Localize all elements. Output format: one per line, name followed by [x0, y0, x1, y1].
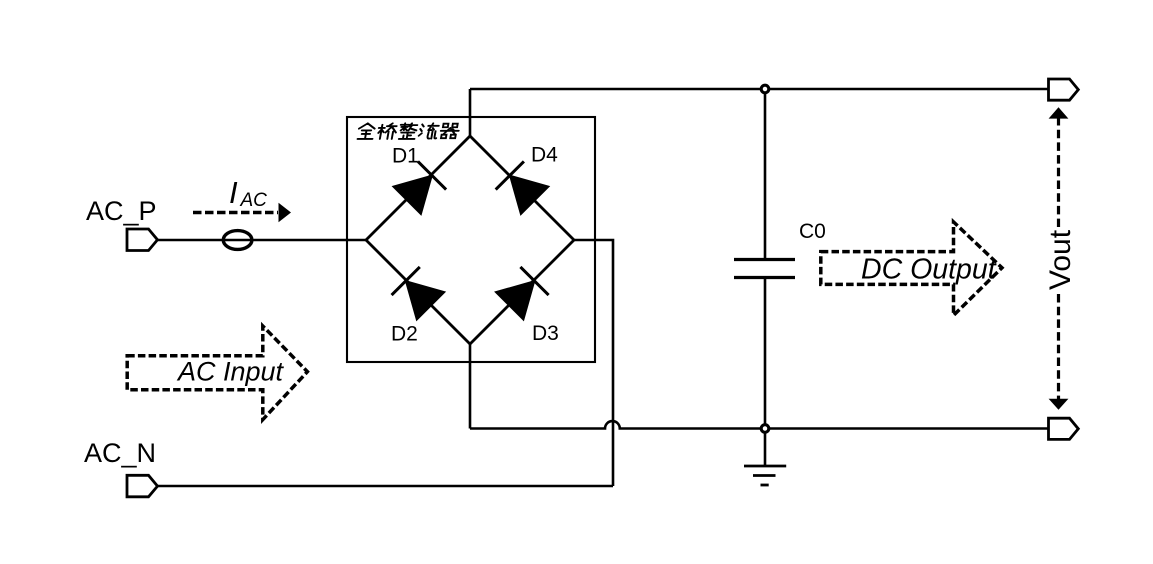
terminal OUT- [1049, 418, 1079, 439]
svg-text:I: I [229, 175, 238, 210]
bridge rectifier box [347, 117, 595, 362]
label AC_P [86, 196, 157, 226]
label AC Input [176, 357, 285, 387]
label D1 [392, 145, 419, 168]
svg-text:AC: AC [240, 190, 268, 211]
arrow DC Output [821, 222, 1002, 316]
current probe ellipse [223, 231, 252, 250]
diode D2 [392, 267, 445, 320]
diode D3 [496, 267, 549, 320]
Vout dimension arrow [1049, 107, 1069, 410]
wire bridge bottom to rail [469, 344, 472, 429]
label Vout [1044, 229, 1077, 290]
label DC Output [861, 254, 997, 286]
bridge diamond [366, 136, 574, 344]
wire bottom rail with hop [470, 421, 1049, 428]
svg-text:D1: D1 [392, 145, 419, 168]
label D4 [531, 144, 558, 167]
label D3 [532, 322, 559, 345]
terminal AC_N [127, 475, 158, 497]
current arrow I_AC [193, 203, 291, 222]
wire top rail [470, 88, 1049, 91]
terminal AC_P [127, 229, 158, 251]
svg-text:Vout: Vout [1044, 229, 1077, 290]
terminal OUT+ [1049, 79, 1079, 100]
wire bridge top to rail [469, 89, 472, 136]
wire capacitor to bottom rail [764, 278, 767, 429]
svg-text:D3: D3 [532, 322, 559, 345]
wire AC_N [158, 485, 614, 488]
label 全桥整流器 [357, 123, 460, 139]
svg-text:AC_P: AC_P [86, 196, 157, 226]
arrow AC Input [127, 326, 307, 420]
wire AC_P to bridge [158, 239, 367, 242]
capacitor C0 [734, 260, 795, 278]
ground [744, 433, 786, 485]
diode D4 [496, 161, 549, 214]
node bottom junction [761, 425, 769, 433]
svg-text:D2: D2 [391, 323, 418, 346]
label I_AC [229, 175, 267, 211]
svg-text:AC Input: AC Input [176, 357, 285, 387]
wire bridge right vertex down to AC_N [574, 240, 613, 486]
diode D1 [393, 161, 446, 214]
label AC_N [84, 438, 156, 468]
svg-text:D4: D4 [531, 144, 558, 167]
label D2 [391, 323, 418, 346]
svg-text:DC Output: DC Output [861, 254, 997, 286]
label C0 [799, 220, 826, 243]
node top junction [761, 85, 769, 93]
svg-text:AC_N: AC_N [84, 438, 156, 468]
svg-text:C0: C0 [799, 220, 826, 243]
wire node to capacitor [764, 94, 767, 259]
